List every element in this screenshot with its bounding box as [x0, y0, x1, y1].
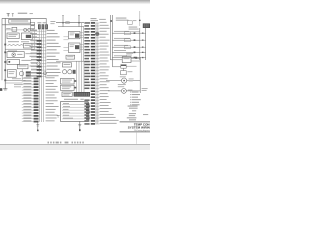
wire: upper mid verticals	[81, 23, 83, 62]
connector C204 (hatched)	[74, 92, 90, 97]
wire: drop from switch box	[78, 121, 81, 131]
wire: mid-left horizontal	[5, 48, 34, 50]
wire: bus under fuse block	[2, 24, 35, 26]
small stacked connectors C201	[31, 22, 35, 28]
wire: motor feed 1	[106, 80, 140, 82]
splice nodes on left rail	[4, 44, 6, 82]
wire: second feed	[112, 66, 120, 68]
stacked footnote lines	[129, 113, 136, 116]
wire: lower mid verticals	[77, 61, 85, 92]
wire: far-right vertical from top	[139, 11, 141, 26]
label above C210	[91, 18, 99, 21]
switch box S1	[7, 60, 31, 65]
title text TEMP / SYSTEM	[128, 123, 150, 133]
legend list	[130, 92, 140, 106]
battery feed symbol	[7, 13, 10, 16]
note paragraph	[128, 106, 138, 112]
blower resistor box	[7, 52, 31, 58]
connector C202 (hatched, top)	[37, 22, 48, 29]
wire: motor feed 2	[108, 90, 140, 92]
wire: outer left border rail	[1, 18, 3, 80]
dashed option box top right	[128, 21, 133, 25]
temperature switch box	[122, 53, 133, 63]
connector pair C100	[5, 28, 37, 31]
label above blower resistor	[8, 50, 17, 53]
right wire rows to connector C211	[112, 31, 139, 58]
dark label block top right	[143, 23, 150, 28]
page fold faint line	[135, 133, 137, 144]
caption rows under motor	[118, 84, 126, 87]
title block rule bottom	[120, 131, 150, 133]
blower switch label box	[62, 92, 72, 97]
condenser fan motor M2	[122, 89, 133, 94]
connector C211 double rail	[140, 28, 146, 60]
dark connector blobs	[26, 71, 31, 76]
wire: mode switch to harness	[80, 44, 83, 49]
wire: twin verticals x110/x112	[110, 15, 112, 67]
blower switch detail box	[61, 102, 90, 122]
toolbar page-nav glyphs	[48, 142, 84, 144]
wire: into temp switch	[110, 57, 140, 61]
resistor ladder	[8, 41, 24, 46]
heater control box B	[61, 85, 75, 90]
compressor clutch box	[7, 70, 16, 78]
relay K1	[6, 27, 17, 31]
fuse block F1	[9, 19, 31, 23]
label left of verticals	[99, 18, 106, 21]
mode switch box	[69, 43, 81, 53]
top browser chrome band	[0, 0, 150, 4]
small caption right	[142, 88, 148, 91]
pins on heater box edges	[74, 80, 76, 88]
wire: drop from circles row	[33, 30, 35, 49]
wire: top feed bus	[2, 18, 46, 24]
wire: rows into mode switch	[63, 48, 68, 51]
wire: lower-left horizontals	[5, 78, 25, 87]
wire: mid horizontal buses	[50, 21, 84, 27]
wire: K2 to harness	[32, 35, 39, 38]
wire: central harness vertical lines	[39, 29, 46, 122]
control module box	[7, 33, 19, 39]
ground stub left of switch box	[57, 116, 60, 117]
wire: mid horizontal y61	[56, 60, 90, 62]
wire: control head to harness	[80, 33, 83, 38]
text rows x129 y26-32	[129, 27, 140, 32]
resistor assembly box	[66, 55, 75, 59]
ground G100	[0, 88, 7, 91]
connector C203 pin rows (left table)	[22, 77, 59, 122]
heater control box A	[61, 78, 75, 84]
pressure switch circle	[19, 71, 23, 75]
header label HOT IN RUN	[116, 18, 137, 21]
extra label row right of module	[21, 40, 29, 43]
diode block	[23, 43, 32, 48]
wire: left vertical rail	[4, 18, 6, 88]
connector C210 pin rows (tall table)	[84, 22, 118, 125]
thermostat box	[121, 71, 133, 75]
wire: right vertical x140	[139, 57, 141, 93]
wire: K3 drop	[21, 69, 23, 81]
wire: mid feed stubs	[62, 16, 80, 27]
fusible link symbol	[12, 13, 14, 16]
wire: drop from C203 to connector end	[36, 122, 39, 131]
label HOT AT ALL TIMES	[18, 13, 33, 14]
A/C control head box	[69, 31, 81, 38]
svg-text:SYSTEM WIRIN: SYSTEM WIRIN	[128, 126, 150, 130]
title block small lines	[127, 114, 148, 120]
relay box K2	[21, 33, 32, 40]
bottom viewer toolbar band	[0, 144, 150, 150]
vacuum motor circles	[63, 70, 76, 74]
blower motor M1	[120, 76, 134, 83]
title block rule top	[120, 121, 150, 123]
relay small box dark	[121, 65, 137, 71]
caption under C204	[64, 98, 84, 101]
wire: rows into control head	[63, 37, 68, 40]
grommet on C210	[95, 32, 99, 36]
central upper wire rows with labels	[30, 30, 61, 77]
vacuum valve box	[62, 63, 71, 67]
relay box K3	[17, 64, 28, 68]
